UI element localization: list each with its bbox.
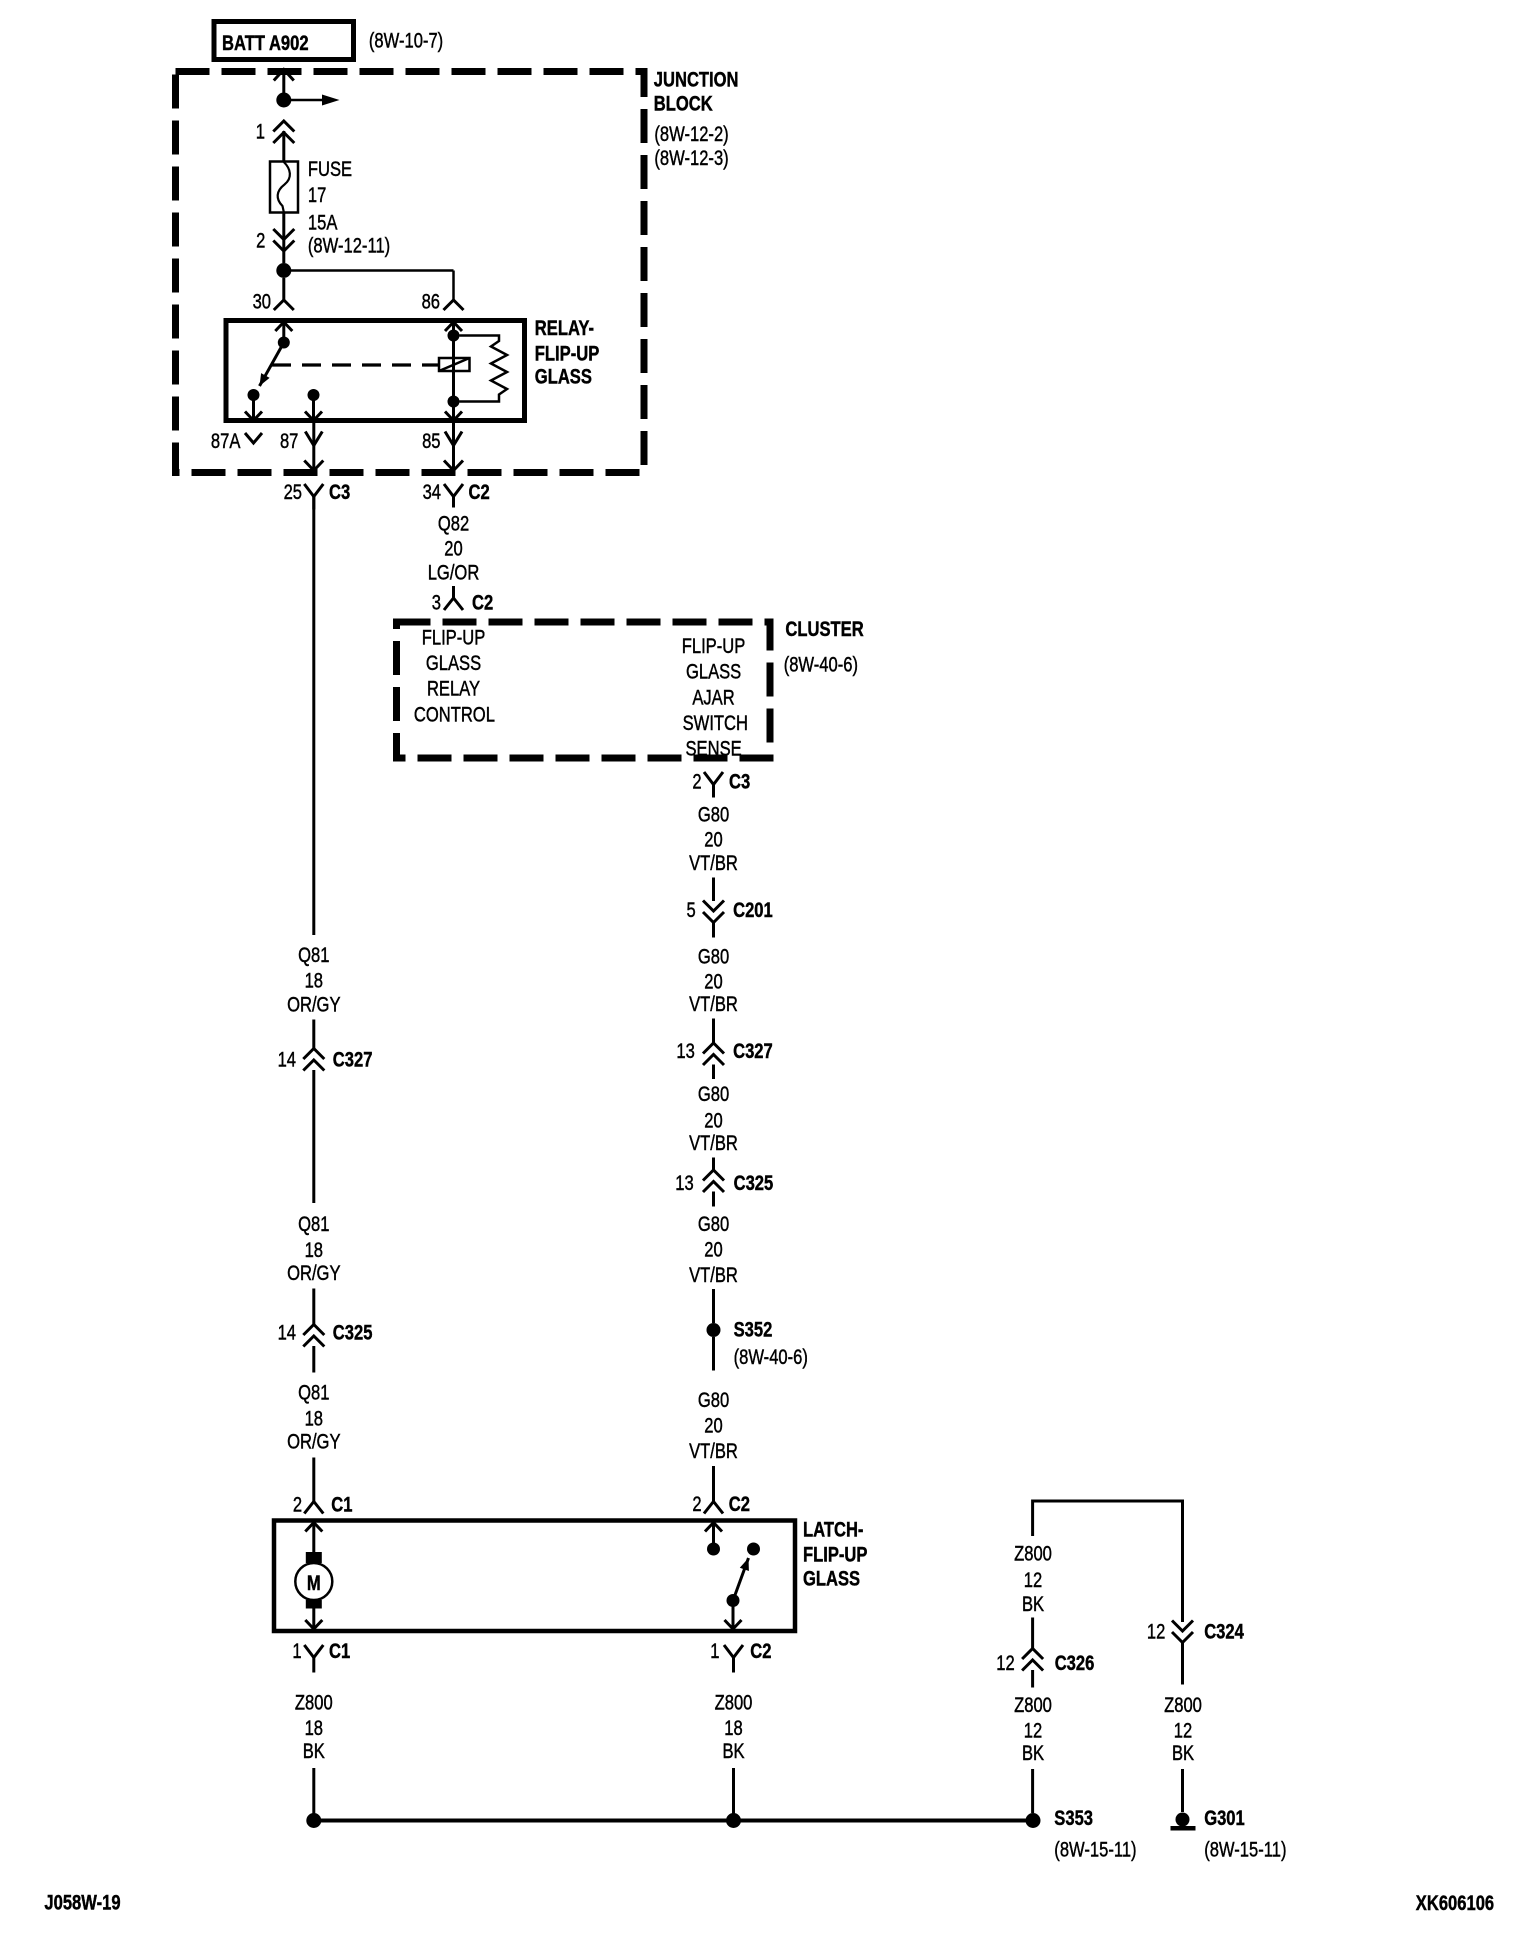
svg-text:13: 13 [675, 1172, 693, 1195]
svg-text:(8W-40-6): (8W-40-6) [734, 1346, 808, 1369]
svg-text:C2: C2 [750, 1640, 771, 1663]
wire relay pin 87 down [312, 423, 315, 470]
svg-text:20: 20 [704, 1239, 722, 1262]
svg-text:FLIP-UP: FLIP-UP [422, 627, 486, 650]
svg-text:C1: C1 [331, 1494, 352, 1517]
svg-text:Q81: Q81 [298, 944, 329, 967]
svg-text:25: 25 [284, 481, 302, 504]
svg-text:C326: C326 [1055, 1652, 1095, 1675]
svg-text:OR/GY: OR/GY [287, 1431, 341, 1454]
splice S352 [707, 1323, 721, 1337]
svg-text:20: 20 [704, 971, 722, 994]
relay coil node bottom [448, 396, 460, 408]
svg-text:Q82: Q82 [438, 513, 469, 536]
svg-text:12: 12 [1147, 1621, 1165, 1644]
svg-text:C1: C1 [329, 1640, 350, 1663]
relay pin 30 male arrow [275, 322, 292, 331]
wire [712, 1289, 715, 1323]
svg-text:Q81: Q81 [298, 1382, 329, 1405]
relay RELAY-FLIP-UP GLASS box [226, 321, 525, 421]
relay coil [439, 358, 470, 371]
wire 87 contact to pin [312, 395, 315, 421]
svg-text:85: 85 [422, 430, 440, 453]
svg-text:JUNCTION: JUNCTION [654, 69, 739, 92]
svg-text:C2: C2 [469, 481, 490, 504]
svg-text:Q81: Q81 [298, 1213, 329, 1236]
svg-text:VT/BR: VT/BR [689, 1132, 738, 1155]
wire relay pin 85 down [452, 423, 455, 470]
junction block boundary [176, 72, 645, 473]
svg-text:AJAR: AJAR [692, 687, 734, 710]
svg-text:20: 20 [704, 1415, 722, 1438]
svg-text:Z800: Z800 [1014, 1543, 1052, 1566]
svg-text:18: 18 [305, 1239, 323, 1262]
svg-text:BK: BK [722, 1740, 744, 1763]
latch LATCH-FLIP-UP GLASS box [274, 1521, 795, 1632]
relay contact 87A node [248, 389, 260, 401]
svg-text:(8W-12-3): (8W-12-3) [654, 147, 728, 170]
svg-text:C325: C325 [734, 1172, 774, 1195]
svg-text:87A: 87A [211, 430, 241, 453]
svg-text:2: 2 [692, 771, 701, 794]
wire splice down to pin 30 [282, 278, 285, 300]
connector pin 86 female [444, 300, 464, 310]
wire to ground G301 [1181, 1769, 1184, 1812]
svg-text:RELAY-: RELAY- [535, 317, 594, 340]
wire [312, 1289, 315, 1325]
svg-text:C201: C201 [733, 899, 773, 922]
svg-text:Z800: Z800 [1014, 1694, 1052, 1717]
latch ajar switch contact node [747, 1543, 760, 1556]
svg-text:FLIP-UP: FLIP-UP [535, 343, 599, 366]
svg-text:C2: C2 [729, 1493, 750, 1516]
svg-text:G80: G80 [698, 1083, 729, 1106]
svg-text:15A: 15A [308, 212, 338, 235]
svg-text:G80: G80 [698, 946, 729, 969]
relay pin 87A male arrow [245, 412, 262, 421]
wire [712, 1065, 715, 1080]
motor M flip-up glass release [306, 1552, 322, 1563]
svg-text:SWITCH: SWITCH [683, 712, 748, 735]
connector 85 Y [445, 432, 462, 446]
svg-text:S353: S353 [1054, 1807, 1093, 1830]
connector arrow at junction block border 85 [444, 461, 463, 471]
wire [712, 1158, 715, 1171]
svg-text:(8W-12-2): (8W-12-2) [654, 123, 728, 146]
wire [712, 1337, 715, 1371]
svg-text:30: 30 [253, 291, 271, 314]
svg-text:20: 20 [704, 829, 722, 852]
svg-text:12: 12 [1174, 1720, 1192, 1743]
svg-text:M: M [307, 1572, 321, 1595]
wire long run to latch glass release motor [312, 497, 315, 936]
latch pin 2 C2 male arrow [705, 1523, 722, 1532]
svg-text:BK: BK [1172, 1742, 1194, 1765]
wire switch to pin 1 C2 [732, 1601, 735, 1630]
svg-text:17: 17 [308, 184, 326, 207]
svg-text:SENSE: SENSE [685, 738, 741, 761]
svg-text:Z800: Z800 [295, 1692, 333, 1715]
svg-text:C327: C327 [733, 1040, 773, 1063]
svg-text:C3: C3 [729, 771, 750, 794]
svg-text:Z800: Z800 [1164, 1694, 1202, 1717]
relay pin 87 male arrow [305, 412, 322, 421]
connector 87 Y [305, 432, 322, 446]
svg-text:18: 18 [724, 1717, 742, 1740]
relay actuation dashed link [272, 363, 439, 366]
wire to fuse [282, 131, 285, 161]
svg-text:C2: C2 [472, 592, 493, 615]
svg-text:S352: S352 [734, 1319, 773, 1342]
svg-text:14: 14 [278, 1322, 296, 1345]
wire motor to pin 1 [312, 1608, 315, 1629]
relay suppression resistor [460, 336, 508, 402]
node bus mid [726, 1813, 741, 1828]
svg-text:20: 20 [444, 538, 462, 561]
svg-text:VT/BR: VT/BR [689, 1440, 738, 1463]
svg-text:FLIP-UP: FLIP-UP [803, 1544, 867, 1567]
svg-text:(8W-40-6): (8W-40-6) [784, 654, 858, 677]
svg-text:2: 2 [293, 1494, 302, 1517]
latch ajar switch blade [733, 1558, 749, 1601]
svg-text:2: 2 [256, 230, 265, 253]
wire [312, 1020, 315, 1049]
svg-text:13: 13 [676, 1040, 694, 1063]
svg-text:XK606106: XK606106 [1416, 1892, 1494, 1915]
svg-text:GLASS: GLASS [803, 1568, 860, 1591]
wire [1031, 1618, 1034, 1649]
cluster module boundary [397, 622, 771, 758]
connector pin 30 female [274, 300, 294, 310]
wire [712, 923, 715, 938]
wire [712, 878, 715, 902]
svg-text:Z800: Z800 [715, 1692, 753, 1715]
svg-text:G80: G80 [698, 1213, 729, 1236]
wire 87A contact to pin [252, 395, 255, 421]
fuse 17 15A [270, 162, 298, 213]
svg-text:3: 3 [432, 592, 441, 615]
wire to splice S353 [1031, 1769, 1034, 1813]
latch pin 1 C2 male arrow [725, 1620, 742, 1629]
svg-text:C327: C327 [333, 1049, 373, 1072]
svg-text:C325: C325 [333, 1322, 373, 1345]
svg-text:BLOCK: BLOCK [654, 93, 713, 116]
relay pin 86 male arrow [445, 322, 462, 331]
svg-text:BK: BK [303, 1740, 325, 1763]
relay contact 87 node [308, 389, 320, 401]
svg-text:G80: G80 [698, 804, 729, 827]
svg-text:(8W-12-11): (8W-12-11) [308, 235, 390, 258]
svg-text:20: 20 [704, 1110, 722, 1133]
svg-text:BK: BK [1022, 1742, 1044, 1765]
wire pin86 through coil [452, 322, 455, 421]
svg-text:OR/GY: OR/GY [287, 1262, 341, 1285]
wire [1181, 1643, 1184, 1685]
svg-text:GLASS: GLASS [686, 661, 741, 684]
svg-text:LATCH-: LATCH- [803, 1519, 863, 1542]
svg-text:CONTROL: CONTROL [414, 704, 495, 727]
wire long run [312, 1070, 315, 1203]
power feed BATT A902 [214, 22, 354, 60]
latch pin 2 C1 male arrow [305, 1523, 322, 1532]
svg-text:2: 2 [692, 1493, 701, 1516]
svg-text:12: 12 [1024, 1720, 1042, 1743]
connector arrow at junction block border 87 [304, 461, 323, 471]
wire splice to pin 86 branch [284, 269, 454, 272]
svg-text:86: 86 [422, 291, 440, 314]
svg-text:OR/GY: OR/GY [287, 994, 341, 1017]
svg-text:14: 14 [278, 1049, 296, 1072]
svg-text:VT/BR: VT/BR [689, 852, 738, 875]
wire to ground bus [732, 1768, 735, 1815]
latch ajar switch common node [727, 1594, 740, 1607]
svg-text:GLASS: GLASS [535, 366, 592, 389]
wire fuse to splice [282, 214, 285, 264]
svg-text:FLIP-UP: FLIP-UP [682, 635, 746, 658]
latch pin 1 C1 male arrow [305, 1620, 322, 1629]
svg-text:RELAY: RELAY [427, 678, 480, 701]
svg-text:J058W-19: J058W-19 [44, 1892, 120, 1915]
wire [712, 1192, 715, 1207]
svg-text:1: 1 [292, 1640, 301, 1663]
connector pin 2 double chevron [273, 229, 294, 240]
svg-text:GLASS: GLASS [426, 652, 481, 675]
wire [312, 1458, 315, 1490]
latch ajar switch input node [707, 1543, 720, 1556]
svg-text:34: 34 [423, 481, 441, 504]
node splice battery feed [276, 93, 291, 108]
svg-text:C3: C3 [329, 481, 350, 504]
wire to ajar switch [712, 1523, 715, 1550]
wire ground loop top [1033, 1500, 1183, 1503]
connector arrow into junction block from BATT [274, 70, 294, 81]
svg-text:18: 18 [305, 970, 323, 993]
svg-text:12: 12 [1024, 1569, 1042, 1592]
splice S353 on ground bus [1026, 1813, 1041, 1828]
svg-text:(8W-15-11): (8W-15-11) [1204, 1839, 1286, 1862]
svg-text:87: 87 [280, 430, 298, 453]
relay pin 85 male arrow [445, 412, 462, 421]
connector pin 1 double chevron [273, 121, 294, 132]
node splice to relay pins 30/86 [276, 263, 291, 278]
svg-text:18: 18 [305, 1717, 323, 1740]
relay coil node top [448, 330, 460, 342]
wire to motor [312, 1523, 315, 1555]
relay switch blade [260, 343, 284, 387]
svg-text:1: 1 [256, 121, 265, 144]
wire [312, 1346, 315, 1373]
wire BATT feed [282, 71, 285, 93]
svg-text:CLUSTER: CLUSTER [785, 618, 864, 641]
svg-text:G301: G301 [1204, 1807, 1245, 1830]
wire feed tap arrow to other circuits [284, 99, 322, 102]
wire [712, 1019, 715, 1044]
svg-text:G80: G80 [698, 1389, 729, 1412]
svg-text:18: 18 [305, 1408, 323, 1431]
svg-text:1: 1 [710, 1640, 719, 1663]
svg-text:LG/OR: LG/OR [428, 562, 480, 585]
svg-text:5: 5 [686, 899, 695, 922]
ground G301 [1176, 1813, 1190, 1827]
svg-text:C324: C324 [1204, 1621, 1244, 1644]
wire pin30 to switch pivot [282, 322, 285, 343]
svg-text:FUSE: FUSE [308, 158, 352, 181]
svg-text:VT/BR: VT/BR [689, 993, 738, 1016]
connector 87A female chevron [245, 433, 262, 443]
wire [712, 1466, 715, 1489]
svg-text:(8W-10-7): (8W-10-7) [369, 30, 443, 53]
svg-text:(8W-15-11): (8W-15-11) [1054, 1839, 1136, 1862]
svg-text:VT/BR: VT/BR [689, 1264, 738, 1287]
svg-text:BK: BK [1022, 1593, 1044, 1616]
node bus left [306, 1813, 321, 1828]
wire [1031, 1670, 1034, 1688]
ground bus wire [314, 1819, 1034, 1823]
wire to ground bus [312, 1768, 315, 1815]
svg-text:12: 12 [996, 1652, 1014, 1675]
svg-text:BATT A902: BATT A902 [222, 32, 309, 55]
relay switch common pivot [278, 337, 290, 349]
